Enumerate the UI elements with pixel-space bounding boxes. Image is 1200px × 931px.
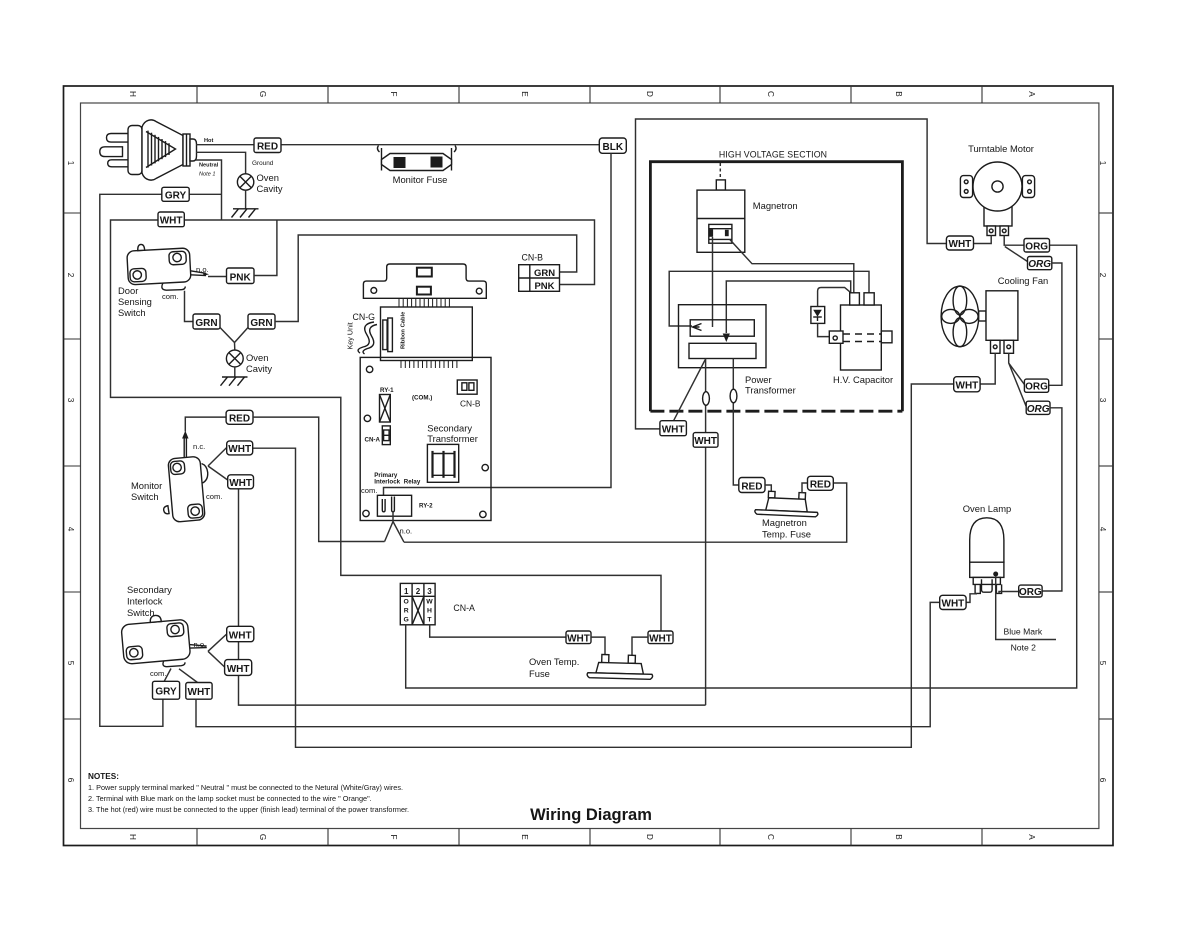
- svg-text:Secondary: Secondary: [127, 584, 172, 595]
- svg-text:F: F: [389, 834, 398, 839]
- connector CN-B (board): [457, 380, 481, 409]
- svg-text:GRY: GRY: [165, 190, 187, 201]
- label box ORG (turntable 1): [1024, 239, 1050, 253]
- svg-text:com.: com.: [206, 492, 222, 501]
- inner drawing frame: [81, 103, 1099, 829]
- wire door com. to GRN: [185, 291, 194, 322]
- svg-text:RY-1: RY-1: [380, 387, 394, 394]
- svg-text:1. Power supply terminal marke: 1. Power supply terminal marked " Neutra…: [88, 783, 403, 792]
- svg-text:WHT: WHT: [942, 599, 965, 610]
- wire fan terminal1 to WHT: [980, 353, 995, 384]
- label Secondary Interlock Switch: [127, 584, 172, 618]
- wire ground: plug to oven cavity lamp: [196, 152, 246, 174]
- wire lamp2 to ground: [234, 367, 236, 377]
- svg-text:D: D: [645, 91, 654, 97]
- label Door Sensing Switch: [118, 285, 152, 318]
- wire turntable terminal1 to WHT: [974, 236, 992, 244]
- wire WHT to top bus to turntable motor WHT: [636, 119, 947, 429]
- wire diode to capacitor left terminal: [818, 288, 851, 307]
- wire lamp1 to ground: [245, 190, 247, 209]
- svg-text:E: E: [520, 91, 529, 97]
- svg-text:3: 3: [66, 398, 75, 403]
- wire transformer filament to capacitor right terminal (line B): [669, 271, 869, 326]
- label box RED (plug hot): [254, 138, 281, 153]
- motor: turntable motor: [960, 162, 1034, 236]
- wire lamp right pin to ORG: [999, 592, 1019, 594]
- svg-text:CN-B: CN-B: [522, 253, 544, 263]
- connector pins keyunit-board: [401, 361, 457, 369]
- label Primary Interlock Relay: [374, 472, 421, 486]
- transformer: power transformer: [679, 305, 767, 368]
- ground symbol 2: [221, 377, 248, 386]
- svg-text:WHT: WHT: [188, 687, 211, 698]
- connector pins bracket-keyunit: [399, 298, 449, 307]
- lamp oven cavity 2: [226, 350, 272, 374]
- svg-text:C: C: [766, 834, 775, 840]
- wire blue mark callout: [996, 577, 1056, 640]
- wire neutral: plug to vertical: [196, 160, 222, 220]
- wire hot: RED to monitor fuse: [281, 144, 380, 146]
- svg-text:WHT: WHT: [227, 664, 250, 675]
- svg-text:B: B: [894, 91, 903, 97]
- svg-text:Note 2: Note 2: [1011, 643, 1037, 653]
- svg-text:Monitor: Monitor: [131, 480, 162, 491]
- svg-text:Door: Door: [118, 285, 138, 296]
- notes block: [88, 772, 409, 814]
- wire RED to relay n.o. left: [253, 417, 385, 541]
- border zone numbers left/right: [66, 161, 1107, 783]
- svg-text:3. The hot (red) wire must be: 3. The hot (red) wire must be connected …: [88, 805, 409, 814]
- svg-text:n.o.: n.o.: [194, 640, 207, 649]
- wire CN-A pin3 to oven temp fuse WHT: [430, 625, 566, 637]
- label box WHT (turntable): [946, 236, 973, 250]
- svg-text:WHT: WHT: [567, 633, 590, 644]
- label box WHT (oven lamp): [940, 595, 966, 609]
- switch: secondary interlock switch: [120, 611, 208, 670]
- switch: door sensing switch: [126, 241, 209, 292]
- svg-text:RED: RED: [229, 414, 250, 425]
- svg-text:A: A: [1027, 91, 1036, 97]
- label box WHT (interlock com): [186, 683, 212, 700]
- connector bullet 2: [730, 389, 737, 403]
- wire hot: plug to RED: [196, 144, 254, 146]
- svg-text:Secondary: Secondary: [427, 423, 472, 434]
- wire GRY net: left vertical down to secondary interlock GRY: [100, 194, 163, 726]
- wire GRN right to CN-B GRN row: [275, 235, 577, 322]
- wire CN-A pin1 ORG bus to oven lamp ORG: [406, 245, 1077, 688]
- label box WHT (interlock 2): [225, 660, 252, 676]
- svg-text:PNK: PNK: [534, 281, 554, 292]
- capacitor: H.V. capacitor: [829, 293, 892, 370]
- svg-text:H: H: [128, 91, 137, 97]
- svg-text:WHT: WHT: [949, 239, 972, 250]
- svg-text:Transformer: Transformer: [427, 433, 478, 444]
- svg-text:Interlock: Interlock: [374, 479, 400, 486]
- ribbon cable squiggle: [358, 322, 377, 354]
- relay RY-2: [377, 495, 433, 516]
- lamp oven cavity 1: [237, 172, 282, 194]
- svg-text:Magnetron: Magnetron: [762, 517, 807, 528]
- switch: monitor switch: [159, 456, 205, 523]
- wire diode to capacitor case tab: [818, 323, 830, 336]
- wire PNK up to neutral line: [254, 220, 277, 276]
- svg-text:F: F: [389, 91, 398, 96]
- connector CN-B table: [519, 253, 560, 293]
- svg-text:E: E: [520, 834, 529, 840]
- svg-text:Cooling Fan: Cooling Fan: [998, 275, 1049, 286]
- svg-text:1: 1: [66, 161, 75, 166]
- svg-text:6: 6: [66, 778, 75, 783]
- svg-text:G: G: [258, 91, 267, 97]
- svg-text:Interlock: Interlock: [127, 596, 163, 607]
- label box ORG (fan 2): [1026, 401, 1050, 415]
- svg-text:ORG: ORG: [1025, 382, 1048, 393]
- svg-text:BLK: BLK: [603, 142, 624, 153]
- svg-text:2: 2: [66, 273, 75, 278]
- svg-text:PNK: PNK: [230, 272, 252, 283]
- svg-text:R: R: [404, 608, 409, 615]
- label box WHT (neutral): [158, 212, 184, 227]
- wire ORG2 to cooling fan ORG3: [1049, 263, 1062, 385]
- svg-text:Neutral: Neutral: [199, 163, 219, 169]
- label box ORG (oven lamp): [1019, 585, 1042, 598]
- svg-text:WHT: WHT: [228, 444, 251, 455]
- svg-text:H: H: [128, 834, 137, 840]
- svg-text:Cavity: Cavity: [257, 183, 283, 194]
- svg-text:Magnetron: Magnetron: [753, 200, 798, 211]
- label box GRN (left): [193, 314, 220, 329]
- svg-text:Fuse: Fuse: [529, 668, 550, 679]
- wire GRN junction to oven cavity lamp 2: [220, 328, 248, 351]
- svg-text:Key Unit: Key Unit: [346, 322, 355, 349]
- svg-text:2. Terminal with Blue mark on: 2. Terminal with Blue mark on the lamp s…: [88, 794, 372, 803]
- svg-text:3: 3: [1098, 398, 1107, 403]
- svg-text:GRY: GRY: [155, 687, 177, 698]
- svg-text:Transformer: Transformer: [745, 385, 796, 396]
- label box WHT (interlock 1): [227, 626, 254, 641]
- wire monitor fuse to BLK: [456, 144, 599, 146]
- svg-text:1: 1: [1098, 161, 1107, 166]
- wire primary pin1 diagonal to WHT: [674, 360, 706, 421]
- svg-text:2: 2: [416, 587, 421, 596]
- connector bullet 1: [703, 392, 710, 406]
- label box WHT (cooling fan): [954, 377, 980, 392]
- svg-text:CN-G: CN-G: [353, 312, 376, 322]
- svg-text:ORG: ORG: [1019, 587, 1042, 598]
- svg-text:RED: RED: [257, 142, 278, 153]
- svg-text:WHT: WHT: [662, 425, 685, 436]
- label Monitor Switch: [131, 480, 162, 502]
- svg-text:6: 6: [1098, 778, 1107, 783]
- label box WHT (monitor 2): [228, 475, 254, 489]
- arrow into HV winding: [723, 334, 730, 343]
- wire magnetron filament F to transformer: [712, 237, 714, 327]
- fuse: oven temp fuse: [587, 654, 653, 679]
- wire transformer primary pin2 down to RED: [733, 359, 739, 486]
- label box ORG (turntable 2): [1028, 257, 1052, 271]
- svg-text:Switch: Switch: [127, 607, 155, 618]
- svg-text:H.V. Capacitor: H.V. Capacitor: [833, 374, 893, 385]
- svg-text:com.: com.: [150, 669, 166, 678]
- wire fan terminal2 to ORG labels: [1009, 353, 1026, 406]
- svg-text:W: W: [426, 599, 433, 606]
- label box RED (monitor): [226, 410, 253, 424]
- svg-text:com.: com.: [162, 292, 178, 301]
- lamp: oven lamp: [970, 518, 1004, 594]
- svg-text:n.c.: n.c.: [193, 442, 205, 451]
- svg-text:Monitor Fuse: Monitor Fuse: [393, 174, 448, 185]
- label box PNK: [227, 268, 255, 284]
- svg-text:WHT: WHT: [694, 436, 717, 447]
- svg-text:4: 4: [66, 527, 75, 532]
- border zone letters top/bottom: [128, 91, 1036, 840]
- label box ORG (fan 1): [1024, 379, 1048, 393]
- wire WHT neutral net: left vertical, across bottom to oven temp fuse: [111, 220, 662, 631]
- svg-text:O: O: [404, 599, 409, 606]
- label box GRY: [162, 187, 189, 201]
- wire RED to fuse pin: [765, 485, 771, 493]
- svg-text:5: 5: [1098, 661, 1107, 666]
- label box WHT (transformer A): [660, 421, 687, 436]
- svg-text:WHT: WHT: [956, 381, 979, 392]
- label Power Transformer: [745, 374, 796, 396]
- svg-text:ORG: ORG: [1028, 259, 1051, 270]
- wire door n.o. to PNK: [208, 276, 227, 278]
- svg-text:Oven Lamp: Oven Lamp: [963, 503, 1011, 514]
- svg-text:GRN: GRN: [534, 268, 555, 279]
- label box GRY (interlock): [153, 681, 180, 699]
- label box RED (mag fuse left): [739, 478, 765, 493]
- svg-text:Relay: Relay: [404, 479, 421, 486]
- wire neutral line to CN-B PNK: [184, 220, 594, 285]
- wire monitor com diagonals to WHT labels: [208, 448, 228, 481]
- svg-text:1: 1: [404, 587, 409, 596]
- svg-text:WHT: WHT: [229, 478, 252, 489]
- svg-text:C: C: [766, 91, 775, 97]
- svg-text:CN-B: CN-B: [460, 399, 481, 409]
- svg-text:Hot: Hot: [204, 138, 213, 144]
- svg-text:GRN: GRN: [195, 318, 217, 329]
- svg-text:Cavity: Cavity: [246, 363, 272, 374]
- svg-text:G: G: [404, 617, 409, 624]
- svg-text:B: B: [894, 834, 903, 840]
- border zone ticks: [64, 86, 1114, 846]
- wire turntable terminal2 to ORG labels: [1004, 236, 1027, 262]
- svg-text:Ground: Ground: [252, 160, 274, 167]
- svg-text:Ribbon Cable: Ribbon Cable: [401, 311, 407, 349]
- svg-text:G: G: [258, 834, 267, 840]
- svg-text:HIGH VOLTAGE SECTION: HIGH VOLTAGE SECTION: [719, 150, 827, 160]
- fuse: magnetron temp fuse: [755, 491, 819, 517]
- svg-text:ORG: ORG: [1027, 404, 1050, 415]
- label box BLK: [599, 138, 626, 153]
- wire magnetron FA to capacitor (line A): [730, 239, 854, 293]
- wire BLK down to primary interlock relay com.: [384, 153, 612, 499]
- wire WHT down through interlock to transformer primary (bottom bus): [239, 489, 706, 705]
- relay RY-1: [380, 387, 395, 422]
- label box WHT (transformer B): [693, 433, 718, 448]
- svg-text:Oven Temp.: Oven Temp.: [529, 656, 579, 667]
- wire lamp left pin to WHT: [966, 594, 977, 603]
- label box RED (mag fuse right): [808, 476, 834, 490]
- svg-text:Switch: Switch: [131, 491, 159, 502]
- wire monitor n.c. to RED: [185, 417, 226, 431]
- label box WHT (monitor 1): [227, 441, 253, 455]
- svg-text:5: 5: [66, 661, 75, 666]
- main control board: [360, 357, 491, 520]
- wire relay n.o. to magnetron temp fuse RED: [404, 483, 847, 542]
- svg-text:CN-A: CN-A: [453, 603, 475, 613]
- label box GRN (right): [248, 314, 275, 329]
- label box WHT (oven fuse left): [566, 631, 591, 644]
- svg-text:NOTES:: NOTES:: [88, 772, 119, 781]
- sheet outer border: [64, 86, 1114, 846]
- key unit board: [381, 307, 473, 361]
- wire interlock n.o. diagonals: [208, 634, 227, 667]
- svg-text:RED: RED: [741, 481, 762, 492]
- connector CN-A (board): [365, 426, 391, 445]
- label Oven Temp. Fuse: [529, 656, 579, 679]
- svg-text:Note 1: Note 1: [199, 172, 215, 178]
- fan: cooling fan: [941, 286, 1018, 353]
- svg-text:D: D: [645, 834, 654, 840]
- svg-text:WHT: WHT: [229, 630, 252, 641]
- power supply plug: [100, 120, 197, 180]
- wire GRY right link: [189, 193, 221, 195]
- svg-text:WHT: WHT: [649, 633, 672, 644]
- wire relay n.o. V: [385, 512, 404, 543]
- wire interlock com WHT to oven lamp WHT (bottom bus): [196, 602, 940, 726]
- svg-text:H: H: [427, 608, 432, 615]
- monitor switch plunger (n.c.): [183, 433, 187, 458]
- svg-text:(COM.): (COM.): [412, 395, 432, 402]
- svg-text:Blue Mark: Blue Mark: [1004, 627, 1043, 637]
- svg-text:4: 4: [1098, 527, 1107, 532]
- svg-text:WHT: WHT: [160, 216, 183, 227]
- diode (HV rectifier): [811, 307, 825, 324]
- svg-text:Oven: Oven: [257, 172, 279, 183]
- svg-text:CN-A: CN-A: [365, 437, 381, 444]
- svg-text:A: A: [1027, 834, 1036, 840]
- svg-text:ORG: ORG: [1025, 241, 1048, 252]
- svg-text:Turntable Motor: Turntable Motor: [968, 143, 1034, 154]
- wire fuse pin2 to RED: [802, 483, 808, 493]
- wire ORG4 to oven lamp ORG5: [1042, 408, 1062, 591]
- svg-text:Temp. Fuse: Temp. Fuse: [762, 529, 811, 540]
- svg-text:RED: RED: [810, 480, 831, 491]
- connector CN-A table: [400, 583, 435, 624]
- ground symbol 1: [232, 209, 259, 218]
- wire transformer HV to capacitor left terminal (line C): [726, 281, 850, 333]
- svg-text:RY-2: RY-2: [419, 503, 433, 510]
- svg-text:GRN: GRN: [250, 318, 272, 329]
- svg-text:com.: com.: [361, 486, 377, 495]
- wire WHT to fuse pin2: [632, 637, 648, 655]
- display bracket: [363, 264, 486, 298]
- wire WHT to cooling fan (bottom bus): [253, 384, 954, 747]
- transformer: secondary transformer (board): [427, 423, 478, 483]
- svg-text:n.o.: n.o.: [196, 265, 209, 274]
- label box WHT (oven fuse right): [648, 631, 673, 644]
- wire WHT to fuse pin1: [591, 637, 605, 655]
- high voltage section border: [650, 162, 902, 412]
- fuse: monitor fuse: [377, 145, 456, 171]
- svg-text:Wiring Diagram: Wiring Diagram: [530, 806, 652, 824]
- monitor switch com hook: [202, 464, 208, 484]
- wire transformer primary pin1 down: [705, 359, 707, 706]
- svg-text:Power: Power: [745, 374, 772, 385]
- wire interlock com diagonals to GRY / WHT: [164, 669, 197, 683]
- svg-text:2: 2: [1098, 273, 1107, 278]
- svg-text:3: 3: [427, 587, 432, 596]
- magnetron: [697, 163, 745, 252]
- label Magnetron Temp. Fuse: [762, 517, 811, 540]
- svg-text:Sensing: Sensing: [118, 296, 152, 307]
- svg-text:Oven: Oven: [246, 352, 268, 363]
- svg-text:Switch: Switch: [118, 307, 146, 318]
- svg-text:n.o.: n.o.: [400, 527, 413, 536]
